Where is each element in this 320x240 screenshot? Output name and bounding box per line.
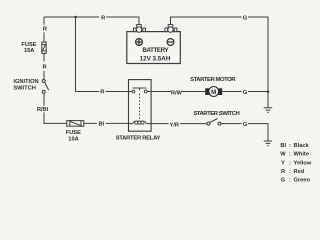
ground (motor/battery return) [264, 108, 273, 113]
relay coil [129, 123, 133, 125]
svg-text:Bl: Bl [98, 122, 104, 128]
svg-text::: : [289, 177, 291, 183]
svg-text:15A: 15A [24, 48, 34, 54]
svg-text:FUSE: FUSE [66, 130, 81, 136]
wire: ignition switch down, corner, to fuse 10A [44, 93, 67, 123]
svg-text:R/Bl: R/Bl [37, 107, 49, 113]
ground (starter switch return) [264, 141, 273, 146]
wire: motor to ground bus [222, 91, 268, 93]
svg-text:Red: Red [294, 169, 305, 175]
svg-text:Yellow: Yellow [294, 160, 312, 166]
svg-text:Green: Green [294, 177, 311, 183]
wire: relay coil output to starter switch [151, 123, 207, 125]
fuse F2 10A (horizontal cartridge) [67, 121, 84, 127]
battery BT1 12V 3.5AH [127, 25, 181, 64]
junction on ground bus [267, 91, 270, 94]
svg-text:R: R [281, 169, 285, 175]
battery negative terminal post [165, 25, 177, 33]
wire: top feed from fuse branch to battery positive [44, 17, 139, 25]
svg-text:IGNITION: IGNITION [13, 79, 38, 85]
svg-text:STARTER MOTOR: STARTER MOTOR [190, 77, 236, 83]
svg-text:Black: Black [294, 143, 310, 149]
svg-text:G: G [243, 90, 248, 96]
svg-text:G: G [281, 177, 286, 183]
svg-text:G: G [243, 15, 248, 21]
svg-text::: : [289, 143, 291, 149]
relay contact bar [133, 88, 147, 90]
svg-text:STARTER RELAY: STARTER RELAY [116, 135, 161, 141]
svg-text:12V 3.5AH: 12V 3.5AH [140, 55, 171, 62]
wire: relay contact output to starter motor [151, 91, 205, 93]
relay contact pins [129, 91, 152, 93]
battery minus symbol [167, 39, 174, 46]
relay actuator dashed link [139, 93, 141, 119]
svg-text:10A: 10A [68, 137, 78, 143]
svg-text::: : [289, 152, 291, 158]
svg-text:Y: Y [281, 160, 285, 166]
battery positive terminal post [134, 25, 146, 33]
junction on top feed wire [74, 16, 77, 19]
wire: fuse 10A to starter relay coil input [84, 122, 129, 124]
svg-text:SWITCH: SWITCH [13, 85, 35, 91]
svg-text:White: White [294, 152, 309, 158]
starter switch S2 [207, 119, 221, 126]
wire: junction down and across to relay contact input [76, 17, 129, 92]
svg-text::: : [289, 160, 291, 166]
wire: left branch down to fuse 15A [43, 17, 45, 42]
legend: wire colour code [280, 143, 312, 184]
wire: battery negative feed across top and down right side [171, 17, 269, 107]
svg-text:BATTERY: BATTERY [142, 47, 169, 54]
starter motor M1 [205, 87, 222, 97]
svg-text:Y/R: Y/R [169, 122, 178, 128]
svg-text::: : [289, 169, 291, 175]
battery plus symbol [136, 39, 143, 46]
ignition switch S1 [42, 80, 49, 94]
svg-text:M: M [211, 89, 216, 96]
starter relay K1 [129, 80, 152, 132]
svg-text:G: G [243, 122, 248, 128]
svg-text:Bl: Bl [280, 143, 286, 149]
wire: starter switch to second ground [221, 124, 268, 141]
wire: fuse 15A to ignition switch [43, 53, 45, 79]
svg-text:W: W [280, 152, 286, 158]
fuse F1 15A (vertical cartridge) [42, 42, 46, 53]
svg-text:STARTER SWITCH: STARTER SWITCH [193, 111, 239, 117]
svg-text:R/W: R/W [171, 91, 183, 97]
